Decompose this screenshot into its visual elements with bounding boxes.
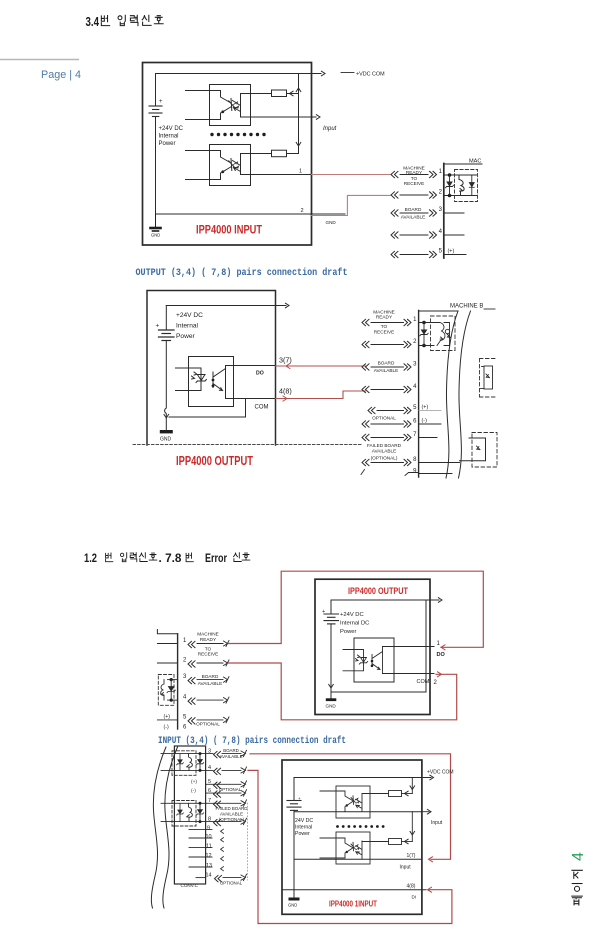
wire R2 to inner rail xyxy=(287,153,299,155)
wire Q6 collector to R4 xyxy=(362,841,389,843)
diode D2 leg xyxy=(472,175,477,196)
svg-text:+24V DC: +24V DC xyxy=(159,126,184,132)
row6 wire xyxy=(206,792,241,794)
svg-text:DI: DI xyxy=(412,895,417,900)
battery V3 xyxy=(324,600,339,692)
zener D9 leg xyxy=(177,803,184,821)
svg-text:5: 5 xyxy=(439,249,443,255)
svg-text:BOARD: BOARD xyxy=(223,748,239,753)
enclosure box xyxy=(282,760,422,914)
svg-text:14: 14 xyxy=(206,873,212,879)
optocoupler U4 box xyxy=(354,638,394,682)
red wire pin3 to 1(7) xyxy=(250,754,451,860)
zener D3 xyxy=(420,330,428,336)
svg-text:COM: COM xyxy=(255,405,269,411)
svg-text:Error: Error xyxy=(205,553,227,565)
svg-text:MAC: MAC xyxy=(469,159,481,165)
wire U5 anode stub xyxy=(320,791,353,801)
svg-text:READY: READY xyxy=(376,315,393,320)
wire J1 pin3 stub xyxy=(444,212,464,214)
svg-text:1: 1 xyxy=(413,317,417,323)
phototransistor Q5 xyxy=(356,795,362,812)
red arrow into DO xyxy=(441,645,445,650)
svg-text:BOARD: BOARD xyxy=(405,207,422,212)
dotted separator row xyxy=(336,825,384,828)
svg-text:2: 2 xyxy=(301,208,304,214)
svg-text:DO: DO xyxy=(256,371,264,377)
wire Input rail xyxy=(294,811,422,813)
svg-text:7: 7 xyxy=(413,432,417,438)
svg-text:OPTIONAL: OPTIONAL xyxy=(220,881,243,886)
pin numbers 9 to 13 xyxy=(206,826,213,869)
red arrow on COM wire xyxy=(283,396,287,401)
svg-text:6: 6 xyxy=(208,788,211,794)
ground symbol xyxy=(160,430,173,433)
row5 wire xyxy=(368,407,375,413)
wire COM return xyxy=(169,399,246,418)
outer enclosure box xyxy=(143,63,312,246)
wire U5 cathode step xyxy=(345,806,347,812)
wire 1(7) rail xyxy=(294,858,422,860)
LED inside U3 xyxy=(192,372,207,383)
row3 wire xyxy=(161,753,213,755)
enclosure box xyxy=(315,579,430,714)
svg-text:Internal: Internal xyxy=(159,134,179,140)
optocoupler U1 box xyxy=(210,85,251,126)
svg-text:7: 7 xyxy=(208,798,211,804)
connector J1 top line xyxy=(444,163,482,165)
svg-text:(-): (-) xyxy=(191,788,196,794)
wire pin8 right xyxy=(419,462,460,464)
wire suppressor vertical xyxy=(449,175,451,196)
junction arrow on ground wire xyxy=(164,414,169,418)
optocoupler U3 box xyxy=(189,357,234,407)
enclosure box xyxy=(147,291,276,446)
svg-text:IPP4000 INPUT: IPP4000 INPUT xyxy=(196,223,263,237)
label FAILED BOARD AVAILABLE (OPTIONAL) xyxy=(216,806,248,822)
wire inner right edge xyxy=(425,600,427,692)
wire Input stub out xyxy=(422,811,429,813)
zener D1 xyxy=(445,182,453,188)
value label +24V DC Internal DC Power xyxy=(340,612,369,635)
svg-text:3: 3 xyxy=(413,362,417,368)
cable curve right xyxy=(163,747,178,908)
svg-text:4: 4 xyxy=(183,695,187,701)
svg-text:5: 5 xyxy=(413,405,417,411)
connector J3 top stub xyxy=(157,630,177,634)
svg-text:TO: TO xyxy=(381,324,388,329)
svg-text:4(8): 4(8) xyxy=(279,387,292,396)
light arrows U1 xyxy=(234,102,239,109)
svg-text:COM: COM xyxy=(417,679,430,685)
svg-text:CONV.C: CONV.C xyxy=(181,883,199,888)
LED inside U1 xyxy=(223,99,234,112)
diode D2 xyxy=(469,183,474,188)
svg-text:1: 1 xyxy=(183,638,187,644)
svg-text:GND: GND xyxy=(326,220,337,225)
svg-text:RECEIVE: RECEIVE xyxy=(198,652,219,657)
row1 chevrons and wire xyxy=(188,641,195,647)
svg-text:Input: Input xyxy=(323,126,337,132)
varistor RV4 xyxy=(187,754,193,771)
varistor RV1 xyxy=(459,175,464,196)
wire Q1 collector to R1 xyxy=(241,93,272,95)
row8 wire xyxy=(161,821,241,823)
red arrow out of COM xyxy=(438,672,442,677)
svg-text:10: 10 xyxy=(206,834,212,840)
svg-text:+VDC COM: +VDC COM xyxy=(427,770,454,776)
svg-text:READY: READY xyxy=(406,170,423,175)
connector J1 body xyxy=(443,164,445,259)
svg-text:2: 2 xyxy=(434,680,438,686)
junction dot pin4 xyxy=(170,699,173,702)
mid diode module stub bottom xyxy=(481,388,485,390)
row6 wire xyxy=(362,421,369,427)
LED inside U5 xyxy=(347,796,356,806)
svg-text:(+): (+) xyxy=(422,405,429,411)
svg-text:+: + xyxy=(159,99,163,105)
connector J3 body xyxy=(177,634,179,729)
pin ticks 9 to 13 xyxy=(221,829,224,871)
svg-text:GND: GND xyxy=(151,233,160,238)
cable curve left xyxy=(446,311,458,478)
svg-text:BOARD: BOARD xyxy=(202,674,219,679)
label BOARD AVAILABLE xyxy=(374,361,399,374)
junction dot pin7 xyxy=(199,802,202,805)
svg-text:INPUT (3,4) ( 7,8) pairs conn: INPUT (3,4) ( 7,8) pairs connection draf… xyxy=(158,735,346,747)
wire battery to ground xyxy=(165,341,167,431)
dotted separator row xyxy=(210,133,265,136)
wire DO output xyxy=(383,646,435,648)
wire +VDC COM rail xyxy=(294,777,431,779)
svg-text:AVAILABLE: AVAILABLE xyxy=(374,368,399,373)
optocoupler U5 box xyxy=(336,786,370,818)
connector J4 body xyxy=(174,746,205,884)
wire inner top rail xyxy=(331,599,439,601)
header rule xyxy=(0,59,79,61)
junction dot pin3 xyxy=(170,678,173,681)
resistor R3 xyxy=(389,791,402,797)
row1 wire left stub xyxy=(157,643,177,645)
svg-text:3.4: 3.4 xyxy=(86,15,100,29)
svg-text:1.2: 1.2 xyxy=(84,553,97,565)
low diode arrow xyxy=(477,446,480,450)
svg-text:AVAILABLE: AVAILABLE xyxy=(372,449,397,454)
wire R3 to rail xyxy=(402,793,413,795)
wire Q5 collector to R3 xyxy=(362,793,389,795)
label FAILED BOARD AVAILABLE (OPTIONAL) xyxy=(367,443,402,461)
wire U2 cathode stub xyxy=(186,172,223,180)
svg-text:24V DC: 24V DC xyxy=(295,818,313,824)
wire J2 pin1 stub xyxy=(419,322,434,324)
svg-text:Internal: Internal xyxy=(176,323,199,330)
svg-text:IPP4000 OUTPUT: IPP4000 OUTPUT xyxy=(348,586,408,596)
phototransistor Q3 xyxy=(213,366,226,399)
mid diode arrow xyxy=(486,374,489,378)
cable curve left xyxy=(151,747,166,908)
LED inside U6 xyxy=(347,842,356,852)
svg-text:DO: DO xyxy=(437,652,446,658)
wire R1 to inner rail xyxy=(287,93,299,95)
ground symbol xyxy=(289,898,300,901)
svg-text:1: 1 xyxy=(437,641,441,647)
svg-text:Internal: Internal xyxy=(295,825,312,831)
svg-text:9: 9 xyxy=(413,469,417,475)
svg-text:OPTIONAL: OPTIONAL xyxy=(372,416,396,421)
svg-text:12: 12 xyxy=(206,853,212,859)
wire Q2 collector to R2 xyxy=(241,153,272,155)
junction dot U1 cathode xyxy=(221,110,224,113)
wire inner bottom rail xyxy=(331,691,426,693)
svg-text:1(7): 1(7) xyxy=(407,853,416,859)
label MACHINE READY TO RECEIVE xyxy=(403,166,425,187)
svg-text:+: + xyxy=(156,323,160,330)
svg-text:Power: Power xyxy=(340,629,357,635)
junction dots Q4 base xyxy=(371,660,374,663)
wire R4 to rail xyxy=(402,841,413,843)
row14 wire xyxy=(196,877,206,879)
row1 wire xyxy=(362,319,369,325)
mid diode module solid box xyxy=(484,366,493,389)
svg-text:RECEIVE: RECEIVE xyxy=(404,181,425,186)
svg-text:Power: Power xyxy=(159,141,176,147)
wire U4 anode bracket xyxy=(343,650,364,671)
wire suppressor vertical xyxy=(170,680,172,701)
junction dots Q3 base xyxy=(212,379,215,382)
wire U2 anode stub xyxy=(186,151,232,164)
svg-text:+24V DC: +24V DC xyxy=(340,612,364,618)
svg-text:IPP4000 1INPUT: IPP4000 1INPUT xyxy=(329,900,377,909)
value label +24V DC Internal Power xyxy=(176,312,203,340)
varistor RV5 xyxy=(187,803,193,821)
svg-text:MACHINE: MACHINE xyxy=(197,632,219,637)
red wire pin4 to 4(8) xyxy=(248,770,452,923)
value label 24V DC Internal Power xyxy=(295,818,313,837)
label MACHINE READY TO RECEIVE xyxy=(373,310,395,335)
svg-text:+: + xyxy=(298,796,301,801)
varistor RV2 xyxy=(435,323,445,346)
wire stub before +VDC COM label xyxy=(341,72,354,74)
wire dots vertical A xyxy=(199,754,201,771)
svg-text:4: 4 xyxy=(570,852,587,861)
dashed protection box xyxy=(455,170,478,202)
svg-text:3: 3 xyxy=(208,749,211,755)
wire pin7 right xyxy=(419,437,437,439)
svg-text:GND: GND xyxy=(160,437,172,443)
row7 wire xyxy=(362,434,369,440)
wire top output xyxy=(166,305,286,307)
junction dot pin4 xyxy=(199,769,202,772)
svg-text:2: 2 xyxy=(183,658,187,664)
optocoupler U2 box xyxy=(210,145,251,186)
svg-text:Power: Power xyxy=(295,831,310,837)
ground symbol xyxy=(151,214,161,231)
battery V2 xyxy=(159,306,175,341)
svg-text:4: 4 xyxy=(208,765,211,771)
svg-text:(+): (+) xyxy=(191,779,197,785)
battery V1 xyxy=(149,74,162,215)
wire GND bottom rail xyxy=(156,213,346,215)
row4 chevrons and wire xyxy=(168,699,178,701)
title 3.4번 입력신호 xyxy=(86,15,164,29)
junction arrow on left vertical xyxy=(329,684,334,688)
red wire loop pin1 to DO xyxy=(229,571,484,647)
label BOARD AVAILABLE xyxy=(198,674,223,686)
wire +VDC COM rail (inner box top edge) xyxy=(156,73,322,75)
svg-text:GND: GND xyxy=(288,903,297,908)
dashed protection box xyxy=(431,316,456,351)
row4 wire xyxy=(362,386,369,392)
red wire pin2 to connector xyxy=(312,195,391,215)
row2 chevrons and wire xyxy=(188,661,195,667)
wire U1 anode stub xyxy=(186,91,232,104)
LED inside U4 xyxy=(356,655,368,664)
svg-text:(+): (+) xyxy=(164,714,171,720)
wire inner right vertical xyxy=(298,74,300,154)
label MACHINE READY TO RECEIVE xyxy=(197,632,219,657)
red arrow on DO wire xyxy=(286,363,290,368)
connector J2 body xyxy=(418,311,420,478)
svg-text:11: 11 xyxy=(206,844,212,850)
label underline stub xyxy=(484,308,495,310)
dashed protection box B xyxy=(172,801,196,827)
light arrows U6 xyxy=(355,845,359,850)
wire DO output xyxy=(226,365,276,367)
svg-text:5: 5 xyxy=(183,715,187,721)
low diode module path xyxy=(460,438,486,461)
junction dot pin8 xyxy=(199,820,202,823)
row5 wire xyxy=(206,783,241,785)
red wire loop pin2 to COM xyxy=(229,663,457,720)
wire U6 anode stub xyxy=(320,838,353,848)
zener D5 xyxy=(167,687,175,693)
svg-text:(OPTIONAL): (OPTIONAL) xyxy=(371,456,398,461)
wire COM output xyxy=(383,673,435,675)
junction dot pin3 xyxy=(199,752,202,755)
resistor R4 xyxy=(389,839,402,845)
svg-text:5: 5 xyxy=(208,779,211,785)
phototransistor Q2 xyxy=(233,154,241,175)
red wire COM to machine xyxy=(276,391,366,399)
svg-text:(+): (+) xyxy=(448,249,455,255)
junction dot pin2 xyxy=(448,194,452,198)
svg-text:AVAILABLE: AVAILABLE xyxy=(198,681,223,686)
wire pin9 right xyxy=(405,473,452,476)
wire inner right vertical lower xyxy=(411,812,413,842)
row5 wire left stub xyxy=(157,719,177,721)
row2 chevrons and wire xyxy=(391,192,398,198)
junction dot pin1 xyxy=(448,173,452,177)
zener D6 xyxy=(196,760,203,766)
wire inner right vertical upper xyxy=(411,778,413,794)
wire U1 cathode stub xyxy=(186,112,223,120)
diode D4 xyxy=(445,329,450,337)
red arrow into 1(7) xyxy=(429,857,433,862)
svg-text:(-): (-) xyxy=(164,725,169,731)
svg-text:GND: GND xyxy=(326,704,337,709)
svg-text:4: 4 xyxy=(413,384,417,390)
row7 wire xyxy=(161,802,241,804)
connector J1 pin numbers xyxy=(439,169,443,255)
svg-text:AVAILABLE: AVAILABLE xyxy=(219,754,242,759)
svg-text:READY: READY xyxy=(200,637,217,642)
svg-text:9: 9 xyxy=(207,826,210,832)
varistor RV3 xyxy=(161,680,164,701)
dashed protection box A xyxy=(172,751,196,776)
svg-text:OPTIONAL: OPTIONAL xyxy=(196,722,220,727)
row3 chevrons and wire xyxy=(391,210,398,216)
svg-text:RECEIVE: RECEIVE xyxy=(374,330,395,335)
label BOARD AVAILABLE xyxy=(219,748,242,759)
row4 wire xyxy=(161,769,213,771)
low dashed box xyxy=(472,433,497,468)
svg-text:FAILED BOARD: FAILED BOARD xyxy=(367,443,402,448)
svg-text:Internal DC: Internal DC xyxy=(340,621,369,627)
wire Input line xyxy=(241,116,317,118)
dashed protection box xyxy=(158,675,174,706)
svg-text:8: 8 xyxy=(413,457,417,463)
svg-text:1: 1 xyxy=(439,169,443,175)
red wire pin1 to connector xyxy=(312,174,391,176)
junction dot J2 pin2 xyxy=(422,344,426,348)
mid dashed box xyxy=(480,359,498,398)
row9 tick xyxy=(361,470,365,475)
optocoupler U6 box xyxy=(336,832,370,864)
wire pin6 right xyxy=(419,423,441,425)
red wire DO to machine xyxy=(276,365,366,367)
zener D7 xyxy=(196,810,203,816)
ground symbol xyxy=(326,692,337,701)
wire dots vertical B xyxy=(199,803,201,821)
svg-text:6: 6 xyxy=(413,419,417,425)
svg-text:2: 2 xyxy=(413,339,417,345)
wire J1 pin1 stub xyxy=(444,174,472,176)
svg-text:OUTPUT (3,4) ( 7,8) pairs con: OUTPUT (3,4) ( 7,8) pairs connection dra… xyxy=(136,267,348,279)
dashed separator line xyxy=(133,444,361,446)
battery V4 xyxy=(287,778,301,898)
row1 chevrons and wire xyxy=(391,171,398,177)
row2 wire xyxy=(362,341,369,347)
wire U6 cathode stub xyxy=(320,852,347,858)
svg-text:8: 8 xyxy=(208,817,211,823)
wire pin1 output xyxy=(241,174,312,176)
svg-text:. 7.8: . 7.8 xyxy=(159,553,183,565)
wire 4(8) rail xyxy=(282,889,426,891)
zener D8 leg xyxy=(177,754,184,771)
svg-text:IPP4000 OUTPUT: IPP4000 OUTPUT xyxy=(176,454,253,468)
connector J2 top edge xyxy=(419,310,458,312)
svg-text:3: 3 xyxy=(439,207,443,213)
svg-text:2: 2 xyxy=(439,190,443,196)
svg-text:Power: Power xyxy=(176,333,195,340)
rows 9 to 13 stubs xyxy=(189,830,212,867)
svg-text:MACHINE B: MACHINE B xyxy=(450,304,483,310)
resistor R1 xyxy=(272,90,287,97)
light arrows U2 xyxy=(234,162,239,169)
red arrow into 4(8) xyxy=(428,887,432,892)
row8 wire xyxy=(362,459,369,465)
wire U3 anode bracket xyxy=(176,368,202,391)
wire J1 pin5 stub xyxy=(444,254,466,256)
svg-text:4: 4 xyxy=(439,229,443,235)
svg-text:(-): (-) xyxy=(422,418,428,424)
svg-text:AVAILABLE: AVAILABLE xyxy=(220,812,243,817)
svg-text:1: 1 xyxy=(299,169,302,175)
phototransistor Q1 xyxy=(233,94,241,117)
junction dot J2 pin1 xyxy=(422,321,426,325)
label BOARD AVAILABLE xyxy=(401,207,426,220)
row5 chevrons and wire xyxy=(188,718,195,724)
